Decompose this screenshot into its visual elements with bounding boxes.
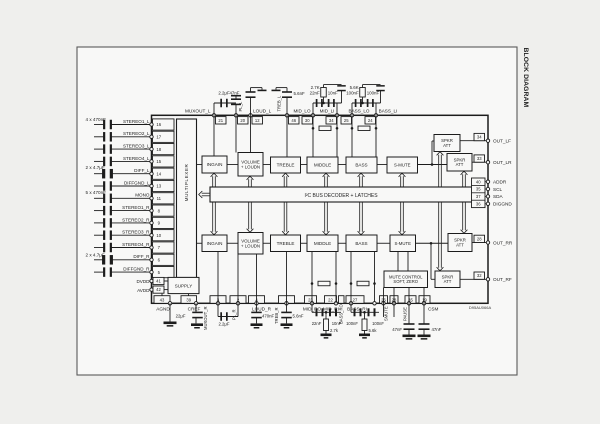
wires pin 27 and stub to BASS (R) with resistor <box>350 252 376 305</box>
svg-text:16: 16 <box>156 122 161 127</box>
block VOLUME + LOUDN (right channel) <box>238 233 263 255</box>
wire VOLUME to TREBLE (R) <box>263 242 271 244</box>
pin 11 MONO <box>135 193 174 204</box>
group value label 2 x 4.7μF <box>86 253 105 258</box>
svg-text:22nF: 22nF <box>310 91 320 96</box>
svg-text:35: 35 <box>476 187 481 192</box>
wire MUX to INGAIN (R) <box>197 242 203 244</box>
group value label 4 x 470nF <box>86 117 107 122</box>
block TREBLE (left channel) <box>271 157 301 173</box>
svg-text:46: 46 <box>291 118 296 123</box>
svg-text:2.7k: 2.7k <box>330 328 339 333</box>
input capacitor + wire for STEREO1_R <box>94 206 152 216</box>
input capacitor + wire for STEREO2_R <box>94 218 152 228</box>
svg-text:32: 32 <box>477 273 482 278</box>
svg-text:BASS: BASS <box>355 241 367 246</box>
pin 32 OUT_RF <box>460 272 512 282</box>
svg-text:STEREO1_L: STEREO1_L <box>123 119 150 124</box>
pin 10 STEREO3_R <box>122 230 174 241</box>
pin 15 STEREO4_L <box>123 156 174 167</box>
svg-text:20: 20 <box>240 118 245 123</box>
svg-text:SOFT, ZERO: SOFT, ZERO <box>393 279 418 284</box>
svg-text:PL_R: PL_R <box>232 310 237 320</box>
svg-text:PL_L: PL_L <box>238 101 243 111</box>
svg-text:OUT_RF: OUT_RF <box>493 277 512 282</box>
pin 5 DIFFGND_R <box>123 267 174 278</box>
svg-text:STEREO2_L: STEREO2_L <box>123 131 150 136</box>
svg-text:CREF: CREF <box>188 306 201 311</box>
label TREB_L (rotated) <box>277 95 282 111</box>
input capacitor + wire for STEREO3_L <box>94 144 152 154</box>
svg-text:BASS_LI: BASS_LI <box>379 109 398 114</box>
capacitor 2.2uF between pins 21 and 20 <box>214 90 236 115</box>
svg-text:27: 27 <box>353 297 358 302</box>
svg-text:STEREO3_R: STEREO3_R <box>122 230 150 235</box>
svg-text:DIGGND: DIGGND <box>493 202 512 207</box>
svg-text:2.2μF: 2.2μF <box>218 321 229 326</box>
control arrow down at x=464 <box>461 202 468 233</box>
wire INGAIN to VOLUME (L) <box>227 164 238 166</box>
pin 9 STEREO2_R <box>122 217 174 228</box>
middle tone network 2.7K 22nF 10nF (pins 30/34) <box>310 85 346 116</box>
svg-text:BASS: BASS <box>355 163 367 168</box>
pin 19 CSM with 47nF <box>418 296 442 340</box>
svg-text:28: 28 <box>477 236 482 241</box>
pin 28 (bottom) <box>390 296 398 317</box>
pin 39 CREF with 22uF <box>176 296 203 329</box>
pin 14 DIFF_L <box>134 168 174 179</box>
block SPKR ATT (OUT_RR) <box>448 234 472 252</box>
block MIDDLE (right channel) <box>307 235 338 252</box>
page sheet <box>77 47 517 375</box>
pin 21 (top) <box>212 114 226 124</box>
wires pins 30/34 to MIDDLE with resistor <box>312 115 339 157</box>
svg-text:22μF: 22μF <box>176 313 186 318</box>
wire MIDDLE to BASS (R) <box>338 242 346 244</box>
pin 35 PAUSE with 47nF <box>392 296 416 340</box>
I2C pin stack ADDR SCL SDA DIGGND <box>472 178 486 208</box>
svg-text:STEREO4_L: STEREO4_L <box>123 156 150 161</box>
control arrow down at x=285.5 <box>282 202 289 235</box>
svg-text:MULTIPLEXER: MULTIPLEXER <box>184 164 189 202</box>
svg-text:2 x 4.7μF: 2 x 4.7μF <box>86 253 105 258</box>
svg-text:15: 15 <box>156 159 161 164</box>
svg-text:OUT_LR: OUT_LR <box>493 160 512 165</box>
svg-text:DIFFGND_L: DIFFGND_L <box>124 180 150 185</box>
svg-text:MONO: MONO <box>135 193 150 198</box>
wire pin 3 to INGAIN (R) <box>217 252 219 304</box>
svg-text:CSM: CSM <box>428 306 439 311</box>
pin 28 OUT_RR <box>472 235 513 245</box>
wire pin 46 to TREBLE <box>286 115 288 157</box>
svg-text:43: 43 <box>160 297 165 302</box>
wire pin 2 to VOLUME (R) <box>237 254 239 303</box>
svg-text:S-MUTE: S-MUTE <box>394 163 411 168</box>
pin 2 PL_R <box>230 296 246 320</box>
pin 43 AGND <box>154 296 177 327</box>
svg-text:37: 37 <box>476 194 481 199</box>
svg-text:11: 11 <box>157 196 162 201</box>
svg-text:12: 12 <box>255 118 260 123</box>
block BASS (right channel) <box>346 235 377 252</box>
block INGAIN (left channel) <box>202 156 227 173</box>
svg-text:ATT: ATT <box>443 143 451 148</box>
svg-text:10: 10 <box>156 233 161 238</box>
svg-text:STEREO3_L: STEREO3_L <box>123 144 150 149</box>
wire pin 4 to VOLUME (R) <box>256 254 258 303</box>
svg-text:OUT_RR: OUT_RR <box>493 240 513 245</box>
control arrow up at x=214 <box>211 173 218 187</box>
control arrow up at x=361 <box>358 173 365 187</box>
svg-text:MIDDLE: MIDDLE <box>314 163 331 168</box>
pin 33 OUT_LR <box>472 155 512 165</box>
external bass network 100nF 100nF 5.6k (pin 27) <box>346 303 384 338</box>
svg-text:AGND: AGND <box>156 306 170 311</box>
pin 13 DIFFGND_L <box>124 180 174 191</box>
svg-text:5.6nF: 5.6nF <box>294 91 306 96</box>
pin 23 MID_RO <box>303 296 322 312</box>
svg-text:5.6nF: 5.6nF <box>293 313 304 318</box>
svg-text:MID_LO: MID_LO <box>293 109 311 114</box>
pin 20 (top) <box>234 114 248 124</box>
svg-text:100nF: 100nF <box>346 91 359 96</box>
pin 6 DIFF_R <box>133 254 174 265</box>
svg-text:5 x 470nF: 5 x 470nF <box>86 190 107 195</box>
group value label 5 x 470nF <box>86 190 107 195</box>
svg-text:34: 34 <box>477 135 482 140</box>
pin 46 (top) <box>285 114 299 124</box>
pin 41 DVDD <box>136 277 168 284</box>
pin 1 TREB_R with 5.6nF <box>274 296 304 329</box>
pin 12 (top) <box>249 114 263 124</box>
control arrow down at x=361 <box>358 202 365 235</box>
control arrow down at x=440 <box>437 202 444 271</box>
svg-text:22: 22 <box>328 297 333 302</box>
svg-text:2.7K: 2.7K <box>311 85 320 90</box>
svg-text:47nF: 47nF <box>432 327 442 332</box>
svg-text:39: 39 <box>186 297 191 302</box>
block VOLUME + LOUDN (left channel) <box>238 153 263 177</box>
figure code <box>469 305 492 310</box>
svg-text:33: 33 <box>477 156 482 161</box>
pin 24 (top) <box>365 114 378 124</box>
svg-text:47nF: 47nF <box>229 90 239 95</box>
svg-text:18: 18 <box>156 147 161 152</box>
input capacitor + wire for DIFFGND_L <box>94 181 152 191</box>
control arrow up at x=250 <box>247 176 254 187</box>
svg-text:DVDD: DVDD <box>136 279 150 284</box>
svg-text:LOUD_R: LOUD_R <box>252 306 272 311</box>
bass tone network 5.6K 100nF 100nF (pins 25/24) <box>346 85 385 116</box>
wire pin 1 to TREBLE (R) <box>286 252 288 304</box>
svg-text:D95AU066A: D95AU066A <box>469 305 492 310</box>
wire MIDDLE to BASS (L) <box>338 164 346 166</box>
svg-text:+ LOUDN: + LOUDN <box>241 164 260 169</box>
block SPKR ATT (OUT_LR) <box>447 154 472 172</box>
pin 8 STEREO1_R <box>122 205 174 216</box>
svg-text:LOUD_L: LOUD_L <box>253 109 272 114</box>
wire INGAIN to VOLUME (R) <box>227 242 238 244</box>
block MUTE CONTROL SOFT ZERO <box>384 271 428 288</box>
pin 40 ADDR <box>485 180 507 185</box>
capacitor 5.6nF on pin 46 TREB_L <box>272 88 306 116</box>
svg-text:34: 34 <box>329 118 334 123</box>
pin 22 MID_RI <box>323 296 339 312</box>
svg-text:36: 36 <box>476 201 481 206</box>
pin 25 (top) <box>341 114 354 124</box>
svg-text:I²C BUS DECODER + LATCHES: I²C BUS DECODER + LATCHES <box>304 193 378 199</box>
input capacitor + wire for STEREO3_R <box>94 230 152 240</box>
capacitor on pin 12 LOUD_L <box>246 88 267 116</box>
pin 36 DIGGND <box>485 202 512 207</box>
svg-text:4 x 470nF: 4 x 470nF <box>86 117 107 122</box>
svg-text:STEREO4_R: STEREO4_R <box>122 242 150 247</box>
input capacitor + wire for DIFFGND_R <box>94 267 152 277</box>
svg-text:MUXOUT_L: MUXOUT_L <box>185 109 211 114</box>
control arrow up at x=464 <box>461 171 468 187</box>
pin 26 (SMUTE) <box>380 296 389 321</box>
svg-text:INGAIN: INGAIN <box>207 162 223 167</box>
control arrow up at x=402 <box>399 173 406 187</box>
svg-text:S-MUTE: S-MUTE <box>395 241 412 246</box>
wires S-MUTE to MUTE CONTROL <box>398 252 408 272</box>
input capacitor + wire for DIFF_L <box>94 169 152 179</box>
pin BASS_RO (narrow, rotated label) <box>339 296 345 324</box>
svg-text:MID_LI: MID_LI <box>320 109 335 114</box>
input capacitor + wire for DIFF_R <box>94 255 152 264</box>
wire pin 12 to VOLUME <box>250 115 252 152</box>
label MID_LO <box>293 109 311 114</box>
wire supply to pin 43 <box>161 294 163 296</box>
svg-text:2.2μF: 2.2μF <box>218 90 230 95</box>
title BLOCK DIAGRAM (rotated) <box>522 48 529 108</box>
control arrow down at x=250 <box>247 202 254 232</box>
control arrow up at x=326 <box>323 173 330 187</box>
svg-text:DIFFGND_R: DIFFGND_R <box>123 267 150 272</box>
svg-text:22nF: 22nF <box>312 321 322 326</box>
pin 27 BASS_RI <box>346 296 367 312</box>
svg-text:STEREO2_R: STEREO2_R <box>122 217 150 222</box>
label PL_L (rotated) <box>238 101 243 111</box>
svg-text:25: 25 <box>344 118 349 123</box>
svg-text:SUPPLY: SUPPLY <box>175 284 192 289</box>
svg-text:BLOCK DIAGRAM: BLOCK DIAGRAM <box>522 48 529 108</box>
svg-text:41: 41 <box>156 279 161 284</box>
input capacitor + wire for STEREO1_L <box>94 120 152 130</box>
svg-text:14: 14 <box>156 171 161 176</box>
control arrow down at x=214 <box>211 202 218 235</box>
wire BASS to S-MUTE (L) <box>377 164 387 166</box>
svg-text:SDA: SDA <box>493 194 504 199</box>
svg-text:MIDDLE: MIDDLE <box>314 241 331 246</box>
svg-text:DIFF_R: DIFF_R <box>133 254 150 259</box>
svg-text:47nF: 47nF <box>392 327 402 332</box>
wire TREBLE to MIDDLE (L) <box>301 164 308 166</box>
svg-text:STEREO1_R: STEREO1_R <box>122 205 150 210</box>
capacitor 47nF on pin 20 <box>229 90 241 115</box>
wire BASS to S-MUTE (R) <box>377 242 390 244</box>
input capacitor + wire for STEREO4_R <box>94 243 152 253</box>
svg-text:AVDD: AVDD <box>137 288 150 293</box>
svg-text:10nF: 10nF <box>332 321 342 326</box>
pin 34 OUT_LF <box>460 133 511 143</box>
wire MUX to INGAIN (L) <box>197 164 203 166</box>
svg-text:OUT_LF: OUT_LF <box>493 139 511 144</box>
wire pin 21 to INGAIN <box>213 115 215 156</box>
label LOUD_L <box>253 109 272 114</box>
control arrow up at x=440 <box>437 152 444 187</box>
input capacitor + wire for MONO <box>94 194 152 204</box>
svg-text:5.6K: 5.6K <box>350 85 359 90</box>
svg-text:40: 40 <box>476 179 481 184</box>
block INGAIN (right channel) <box>202 235 227 252</box>
svg-text:BASS_RI: BASS_RI <box>347 306 367 311</box>
multiplexer <box>177 119 197 278</box>
svg-text:42: 42 <box>156 287 161 292</box>
control arrow down at x=326 <box>323 202 330 235</box>
label BASS_LI <box>379 109 398 114</box>
pin 37 SDA <box>485 194 504 199</box>
block MIDDLE (left channel) <box>307 157 338 173</box>
svg-text:INGAIN: INGAIN <box>207 241 223 246</box>
pin 7 STEREO4_R <box>122 242 174 253</box>
block SPKR ATT (OUT_LF) <box>434 135 460 152</box>
pin 17 STEREO2_L <box>123 131 174 142</box>
group value label 2 x 4.7μF <box>86 165 105 170</box>
pin 18 STEREO3_L <box>123 144 174 155</box>
svg-text:DIFF_L: DIFF_L <box>134 168 150 173</box>
svg-text:ADDR: ADDR <box>493 180 507 185</box>
wires pins 23/22 to MIDDLE (R) with resistor <box>311 252 338 304</box>
svg-text:TREBLE: TREBLE <box>277 241 295 246</box>
svg-text:TREB_R: TREB_R <box>274 307 279 324</box>
input capacitor + wire for STEREO4_L <box>94 157 152 167</box>
svg-text:2 x 4.7μF: 2 x 4.7μF <box>86 165 105 170</box>
svg-text:5.6k: 5.6k <box>369 328 378 333</box>
svg-text:PAUSE: PAUSE <box>402 307 407 321</box>
pin 34 (top) <box>326 114 339 124</box>
svg-text:ATT: ATT <box>456 242 464 247</box>
external middle network 22nF 10nF 2.7k (pin 22) <box>312 303 342 338</box>
arrow I2C to multiplexer <box>199 191 210 198</box>
svg-text:TREBLE: TREBLE <box>277 163 295 168</box>
input capacitor + wire for STEREO2_L <box>94 132 152 142</box>
svg-text:470nF: 470nF <box>262 313 275 318</box>
svg-text:10nF: 10nF <box>328 91 338 96</box>
svg-text:17: 17 <box>156 135 161 140</box>
svg-text:24: 24 <box>368 118 373 123</box>
svg-text:100nF: 100nF <box>346 321 358 326</box>
svg-text:MUXOUT_R: MUXOUT_R <box>203 307 208 331</box>
wire VOLUME to TREBLE (L) <box>263 164 271 166</box>
label BASS_LO <box>349 109 370 114</box>
pin 4 LOUD_R with 470nF <box>249 296 275 329</box>
svg-text:13: 13 <box>156 184 161 189</box>
pin 3 MUXOUT_R with 2.2uF bridge <box>203 296 238 330</box>
svg-text:TREB_L: TREB_L <box>277 95 282 111</box>
wire TREBLE to MIDDLE (R) <box>301 242 308 244</box>
supply block <box>168 277 199 293</box>
pin 35 SCL <box>485 187 503 192</box>
control arrow down at x=402 <box>399 202 406 235</box>
svg-text:ATT: ATT <box>456 162 464 167</box>
IC boundary <box>152 115 489 303</box>
label MUXOUT_L <box>185 109 211 114</box>
svg-text:100nF: 100nF <box>367 91 380 96</box>
block SPKR ATT (OUT_RF) <box>435 271 460 288</box>
wire supply to pin 39 <box>188 294 190 296</box>
pin 42 AVDD <box>137 286 168 293</box>
wire S-MUTE to SPKR ATT (R) with branch <box>416 242 449 279</box>
svg-text:ATT: ATT <box>444 279 452 284</box>
svg-text:30: 30 <box>305 118 310 123</box>
block S-MUTE (left channel) <box>387 157 418 173</box>
svg-text:+ LOUDN: + LOUDN <box>241 243 260 248</box>
control arrow up at x=285.5 <box>282 173 289 187</box>
svg-text:21: 21 <box>218 118 223 123</box>
wires MUTE CONTROL to bottom pins <box>384 288 425 304</box>
I2C bus decoder + latches <box>210 187 472 202</box>
wire S-MUTE to SPKR ATT (L) with branch <box>418 141 448 166</box>
block TREBLE (right channel) <box>271 235 301 252</box>
svg-text:SMUTE: SMUTE <box>384 306 389 321</box>
pin 30 (top) <box>302 114 315 124</box>
svg-text:SCL: SCL <box>493 187 503 192</box>
block S-MUTE (right channel) <box>390 235 416 252</box>
label MID_LI <box>320 109 335 114</box>
block BASS (left channel) <box>346 157 377 173</box>
pin 16 STEREO1_L <box>123 119 174 130</box>
wires pins 25/24 to BASS with resistor <box>351 115 378 157</box>
wire pin 20 to VOLUME <box>235 115 237 152</box>
